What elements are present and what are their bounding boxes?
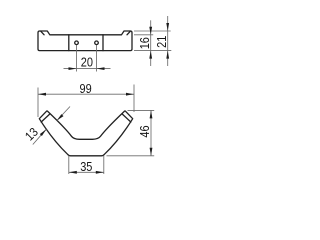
svg-text:21: 21 [155,36,169,48]
dim 20: extension lines from holes [76,45,78,72]
dim 99 arrows (inside) [38,93,46,96]
dim 16/21: extension lines [134,30,171,32]
dim 46: dimension line [150,110,152,155]
dim 16: line tails [150,20,152,66]
dim 46 arrows (inside) [150,110,153,118]
svg-text:13: 13 [22,125,41,144]
dim 20: dimension line [64,68,111,70]
svg-text:20: 20 [81,55,93,69]
hole left [75,41,79,45]
svg-text:46: 46 [138,125,152,137]
division line right [102,35,104,51]
dim 46: extension lines [128,109,155,111]
dim 99: extension lines [37,88,39,118]
front view outline (V hook silhouette) [39,111,132,156]
dim 35 arrows (inside) [69,171,77,174]
hole right [95,41,99,45]
left tip chamfer line [41,114,50,122]
svg-text:16: 16 [138,37,152,49]
svg-text:35: 35 [80,160,92,174]
svg-text:99: 99 [80,82,92,96]
dim 99: dimension line [38,93,134,95]
left flap inner diagonal [41,31,45,35]
top view body outline [38,31,132,51]
dim 13: dimension line tails [57,107,70,121]
dim 20 arrows (outside, pointing inward) [69,67,77,70]
dim 13 arrows (outside, perpendicular to arm) [57,114,64,120]
dim 35: dimension line [69,171,104,173]
dim 21: line tails [167,16,169,66]
dim 21 arrows (outside) [166,23,169,31]
dim 35: extension lines [68,156,70,174]
right tip chamfer line [122,114,131,122]
dim 16 arrows (outside) [149,27,152,35]
right flap inner diagonal [127,31,131,35]
division line left [68,35,70,51]
